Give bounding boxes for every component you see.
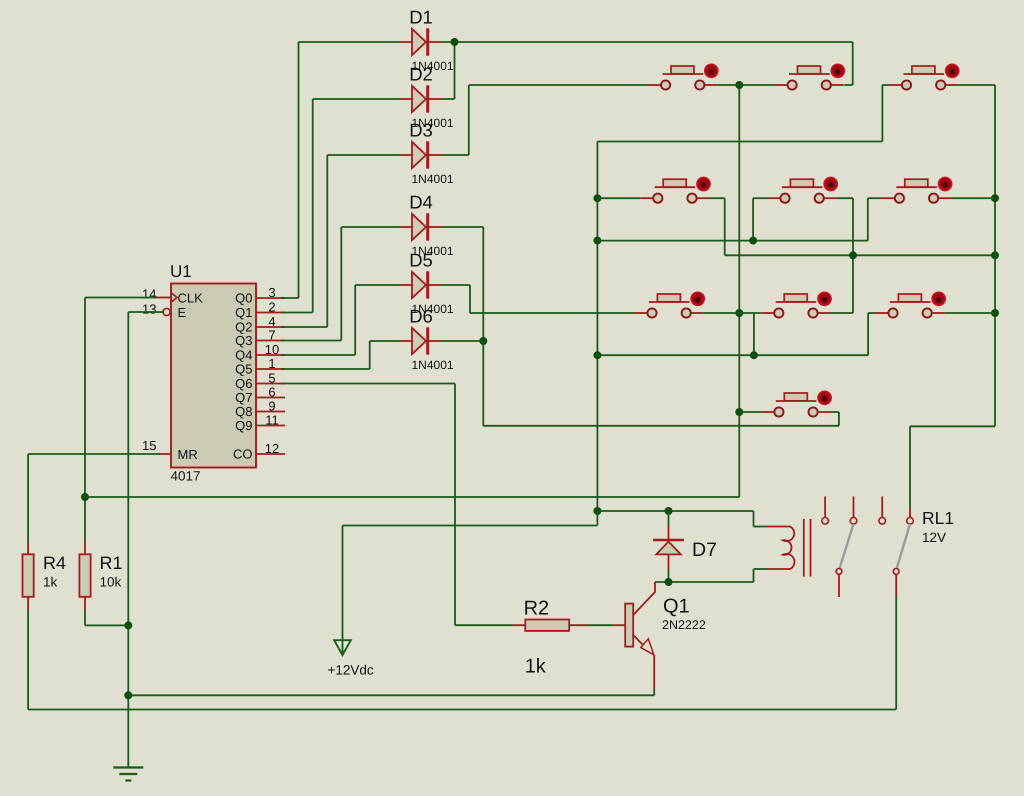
- svg-text:Q3: Q3: [235, 333, 252, 348]
- svg-text:1k: 1k: [525, 656, 547, 678]
- svg-text:Q0: Q0: [235, 291, 252, 306]
- svg-text:CLK: CLK: [178, 291, 204, 306]
- svg-text:10: 10: [265, 342, 279, 357]
- svg-text:D2: D2: [409, 64, 433, 85]
- svg-text:D3: D3: [409, 120, 433, 141]
- svg-text:12: 12: [265, 441, 279, 456]
- svg-text:D4: D4: [409, 192, 433, 213]
- svg-text:D5: D5: [409, 250, 433, 271]
- svg-text:4017: 4017: [171, 469, 201, 484]
- svg-text:6: 6: [268, 385, 275, 400]
- svg-text:D6: D6: [409, 306, 433, 327]
- svg-text:1: 1: [268, 356, 275, 371]
- svg-text:D1: D1: [409, 7, 433, 28]
- svg-text:2N2222: 2N2222: [662, 618, 706, 632]
- svg-text:5: 5: [268, 371, 275, 386]
- svg-text:1k: 1k: [43, 575, 58, 590]
- svg-text:1N4001: 1N4001: [412, 358, 454, 372]
- svg-text:1N4001: 1N4001: [412, 172, 454, 186]
- svg-text:12V: 12V: [922, 530, 946, 545]
- svg-text:13: 13: [142, 302, 156, 317]
- svg-text:Q8: Q8: [235, 404, 252, 419]
- svg-text:2: 2: [268, 300, 275, 315]
- svg-text:10k: 10k: [100, 575, 122, 590]
- svg-text:+12Vdc: +12Vdc: [328, 663, 374, 678]
- svg-text:Q6: Q6: [235, 376, 252, 391]
- svg-text:MR: MR: [178, 447, 198, 462]
- svg-text:Q5: Q5: [235, 362, 252, 377]
- svg-text:Q9: Q9: [235, 418, 252, 433]
- svg-text:CO: CO: [233, 447, 253, 462]
- svg-text:Q4: Q4: [235, 348, 252, 363]
- svg-text:7: 7: [268, 328, 275, 343]
- svg-text:RL1: RL1: [922, 508, 954, 528]
- svg-text:R1: R1: [100, 553, 123, 573]
- svg-text:R4: R4: [43, 553, 66, 573]
- svg-text:D7: D7: [692, 539, 717, 561]
- svg-text:Q7: Q7: [235, 390, 252, 405]
- svg-text:15: 15: [142, 438, 156, 453]
- svg-text:E: E: [178, 305, 187, 320]
- svg-text:11: 11: [265, 413, 279, 428]
- svg-text:R2: R2: [524, 598, 550, 620]
- svg-text:U1: U1: [170, 262, 192, 281]
- svg-text:9: 9: [268, 399, 275, 414]
- svg-text:14: 14: [142, 287, 156, 302]
- svg-text:3: 3: [268, 285, 275, 300]
- svg-text:Q1: Q1: [663, 596, 690, 618]
- svg-text:Q1: Q1: [235, 305, 252, 320]
